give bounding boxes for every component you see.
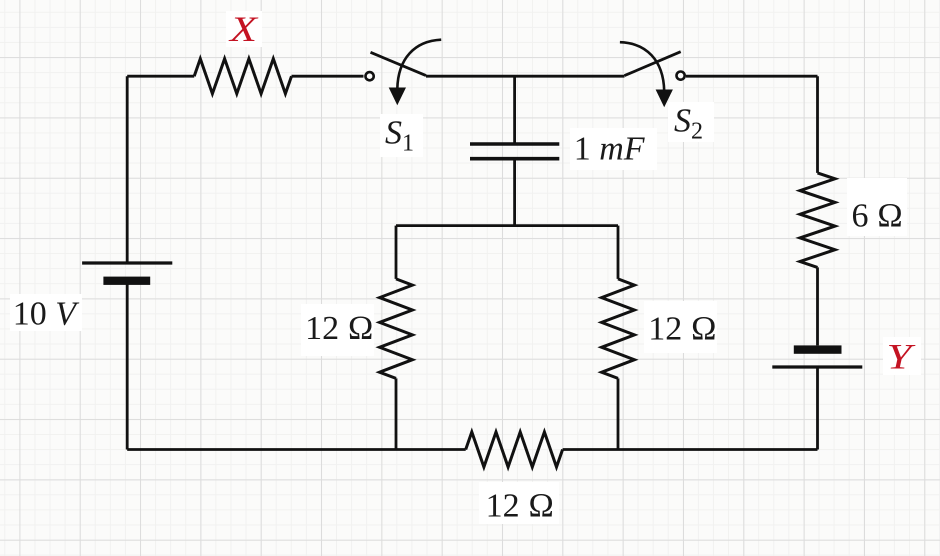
- wire battery Y to bottom: [816, 367, 819, 450]
- wire S2 to right branch: [686, 75, 818, 78]
- resistor X: [194, 59, 291, 94]
- switch S2 actuate arc: [620, 42, 664, 91]
- svg-text:12 Ω: 12 Ω: [305, 310, 374, 347]
- wire left branch upper: [395, 226, 398, 279]
- svg-text:12 Ω: 12 Ω: [648, 311, 717, 348]
- svg-text:1 mF: 1 mF: [574, 131, 646, 168]
- wire top-left horizontal: [127, 75, 194, 78]
- wire top bus S1 to S2: [426, 75, 625, 78]
- switch S1 contact circle: [366, 72, 374, 80]
- wire capacitor bottom lead: [513, 159, 516, 226]
- switch S2 arrowhead: [656, 90, 673, 108]
- label box 6ohm: [847, 178, 907, 236]
- wire right vertical upper: [816, 76, 819, 173]
- wire resistor X to switch S1 contact: [292, 75, 364, 78]
- svg-text:X: X: [228, 9, 260, 49]
- battery Y plate long: [772, 365, 862, 368]
- capacitor C plate top: [470, 142, 559, 146]
- label box 12ohm left: [301, 304, 374, 356]
- switch S2 blade: [625, 52, 681, 76]
- wire bottom right segment: [563, 448, 818, 451]
- resistor 12ohm right: [602, 279, 635, 379]
- label box 1 mF: [570, 128, 657, 170]
- switch S1 actuate arc: [397, 40, 441, 89]
- svg-text:10 V: 10 V: [13, 295, 81, 332]
- switch S2 contact circle: [677, 72, 685, 80]
- label box S2: [668, 102, 714, 142]
- svg-text:12 Ω: 12 Ω: [486, 488, 555, 525]
- wire battery 10V to bottom: [126, 281, 129, 450]
- resistor 12ohm left: [380, 279, 413, 379]
- battery 10V plate short thick: [103, 277, 150, 285]
- wire right branch upper: [617, 226, 620, 279]
- wire bottom left segment: [127, 448, 466, 451]
- wire left vertical upper: [126, 76, 129, 263]
- battery 10V plate long: [82, 261, 172, 264]
- wire right branch lower: [617, 378, 620, 449]
- label box 12ohm right: [644, 301, 717, 353]
- svg-text:6 Ω: 6 Ω: [852, 198, 904, 235]
- wire 6ohm to battery Y: [816, 267, 819, 345]
- label box S1: [380, 114, 423, 157]
- resistor 6ohm: [800, 173, 835, 268]
- capacitor C plate bottom: [470, 157, 559, 161]
- wire middle node horizontal: [396, 224, 618, 227]
- resistor 12ohm bottom: [466, 432, 563, 467]
- switch S1 blade: [371, 52, 427, 75]
- label box 12ohm bottom: [479, 482, 559, 524]
- label box Y: [883, 337, 921, 375]
- battery Y plate short thick: [794, 345, 842, 353]
- switch S1 arrowhead: [389, 88, 406, 106]
- label box 10 V: [10, 294, 82, 331]
- wire left branch lower: [395, 378, 398, 449]
- label box X: [226, 11, 262, 47]
- wire capacitor top lead: [513, 76, 516, 144]
